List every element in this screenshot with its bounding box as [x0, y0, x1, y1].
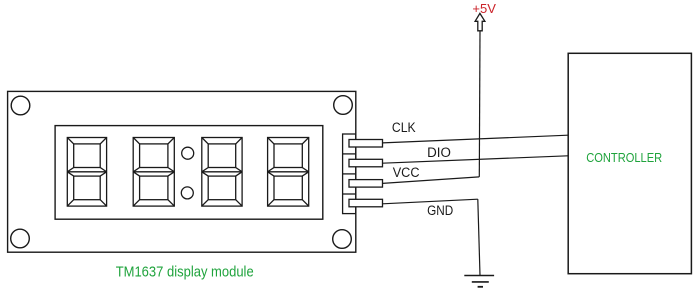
pin 1 CLK	[349, 140, 383, 148]
wire DIO pin2 to controller	[383, 156, 568, 163]
svg-text:CONTROLLER: CONTROLLER	[586, 151, 662, 165]
controller box U1	[568, 53, 691, 273]
mounting hole bottom-left	[11, 229, 30, 248]
ground symbol	[464, 276, 494, 287]
seven-segment digit 1	[67, 138, 106, 207]
seven-segment digit 3	[202, 138, 242, 207]
wire GND vertical to ground	[478, 199, 480, 275]
wire GND pin4 horizontal	[383, 199, 478, 204]
mounting hole bottom-right	[333, 230, 352, 249]
pin 2 DIO	[349, 159, 383, 167]
seven-segment digit 2	[133, 138, 174, 207]
pin 3 VCC	[349, 180, 383, 188]
svg-text:GND: GND	[427, 203, 453, 218]
svg-text:CLK: CLK	[392, 120, 416, 135]
wire VCC pin3 to +5V line	[383, 177, 480, 184]
mounting hole top-left	[11, 96, 30, 115]
pin header body J1	[343, 134, 356, 214]
colon lower dot	[181, 187, 193, 199]
svg-text:DIO: DIO	[427, 145, 451, 160]
svg-text:+5V: +5V	[472, 1, 496, 16]
+5V supply arrow	[475, 13, 485, 30]
mounting hole top-right	[334, 96, 353, 115]
TM1637 module board outline	[8, 91, 356, 252]
pin 4 GND	[349, 199, 383, 207]
colon upper dot	[182, 147, 194, 159]
wire CLK pin1 to controller	[383, 135, 568, 143]
seven-segment digit 4	[268, 138, 309, 207]
wire +5V vertical	[478, 31, 481, 177]
svg-text:TM1637 display module: TM1637 display module	[116, 263, 254, 280]
display window outline	[55, 126, 323, 220]
svg-text:VCC: VCC	[393, 165, 420, 180]
